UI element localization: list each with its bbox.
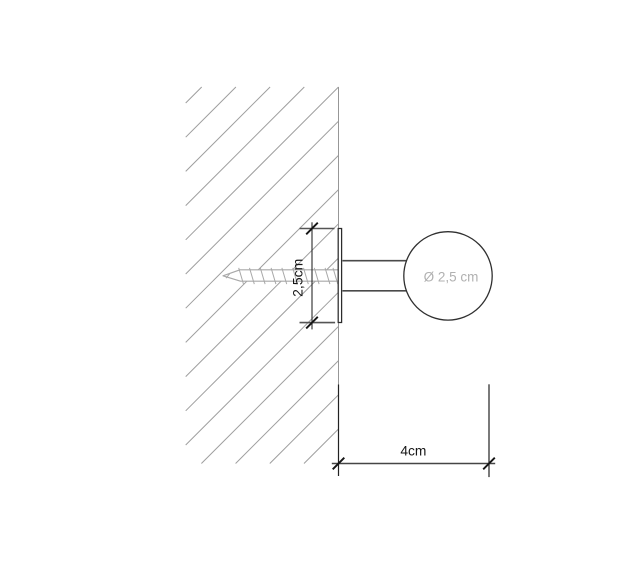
knob ball — [404, 232, 492, 320]
wall face line — [338, 87, 340, 464]
vertical dimension line — [311, 222, 313, 329]
vertical dimension: bottom tick — [306, 317, 318, 329]
wall hatching — [186, 87, 339, 464]
svg-text:2,5cm: 2,5cm — [290, 259, 306, 297]
vertical dimension: top extension line — [300, 228, 335, 230]
vertical dimension: bottom extension line — [300, 322, 336, 324]
svg-text:Ø 2,5 cm: Ø 2,5 cm — [424, 269, 479, 284]
horizontal dimension: left tick — [333, 458, 345, 470]
horizontal dimension: right extension line — [488, 384, 490, 477]
screw body — [223, 270, 339, 281]
mounting plate — [338, 229, 341, 323]
horizontal dimension line — [332, 463, 495, 465]
vertical dimension: top tick — [306, 223, 318, 235]
stem lower line — [342, 290, 409, 292]
horizontal dimension: right tick — [483, 458, 495, 470]
svg-text:4cm: 4cm — [400, 443, 426, 458]
horizontal dimension: left extension line — [338, 385, 340, 477]
screw threads — [226, 268, 338, 284]
stem upper line — [342, 260, 409, 262]
